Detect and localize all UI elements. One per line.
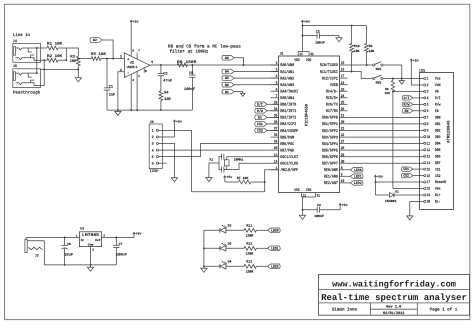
svg-text:1nF: 1nF bbox=[109, 93, 115, 98]
svg-text:RA0/AN0: RA0/AN0 bbox=[280, 63, 294, 68]
svg-text:+5v: +5v bbox=[133, 20, 139, 24]
switch SW1 bbox=[373, 62, 383, 72]
svg-text:ICSP: ICSP bbox=[150, 169, 160, 174]
svg-text:47nF: 47nF bbox=[163, 78, 172, 83]
power +5v C4 bbox=[339, 203, 348, 210]
wire R1-R2 join bbox=[65, 48, 78, 61]
svg-text:RD0/SPP0: RD0/SPP0 bbox=[322, 116, 338, 121]
svg-text:RC6/TX: RC6/TX bbox=[326, 103, 338, 108]
svg-text:EN: EN bbox=[405, 109, 409, 114]
svg-text:15: 15 bbox=[341, 61, 345, 66]
power +5v U1 top bbox=[301, 20, 310, 52]
LCD1 pins bbox=[424, 77, 447, 205]
net tag LED0 at U1 bbox=[348, 168, 364, 174]
svg-text:RD7/SPP7: RD7/SPP7 bbox=[322, 162, 338, 167]
svg-text:R6: R6 bbox=[385, 88, 389, 91]
net tag CS1 at LCD bbox=[401, 167, 423, 172]
svg-text:7: 7 bbox=[427, 116, 429, 121]
svg-text:1N4001: 1N4001 bbox=[385, 199, 397, 203]
svg-text:SW2: SW2 bbox=[376, 81, 382, 85]
wire sleeve ground rail bbox=[41, 68, 79, 70]
svg-text:C5: C5 bbox=[189, 71, 193, 76]
svg-text:R9: R9 bbox=[369, 44, 373, 48]
svg-text:ResetB: ResetB bbox=[435, 180, 447, 185]
svg-text:8: 8 bbox=[145, 70, 147, 73]
analog ground rail bbox=[107, 109, 192, 111]
svg-text:BL+: BL+ bbox=[435, 193, 441, 198]
net tag D/I at U1 bbox=[255, 102, 279, 108]
svg-text:DB7: DB7 bbox=[435, 161, 441, 166]
svg-text:31: 31 bbox=[317, 193, 320, 198]
svg-text:-: - bbox=[127, 72, 130, 76]
svg-text:12: 12 bbox=[427, 148, 431, 153]
svg-text:/MCLR/VPP: /MCLR/VPP bbox=[280, 168, 298, 173]
svg-text:+5v: +5v bbox=[377, 175, 383, 179]
svg-text:RB3/CCP2: RB3/CCP2 bbox=[280, 122, 296, 127]
svg-text:10K: 10K bbox=[354, 49, 360, 53]
svg-text:Rev 1.0: Rev 1.0 bbox=[386, 305, 401, 310]
op-amp U2 LM386-1 bbox=[120, 50, 153, 83]
ground analog bbox=[115, 109, 121, 115]
svg-text:RA5/AN4: RA5/AN4 bbox=[280, 96, 294, 101]
net tag En at U1 bbox=[255, 115, 279, 121]
capacitor C6 10uF bbox=[62, 237, 74, 265]
svg-text:D/I: D/I bbox=[257, 103, 263, 108]
svg-text:www.waitingforfriday.com: www.waitingforfriday.com bbox=[332, 280, 456, 290]
net tag R/W at U1 bbox=[255, 109, 279, 115]
net tag W4 bbox=[222, 69, 279, 75]
net tag W5 bbox=[222, 76, 279, 81]
svg-text:03/01/2011: 03/01/2011 bbox=[383, 311, 405, 316]
ground below R3 bbox=[75, 68, 81, 81]
svg-text:7: 7 bbox=[138, 50, 140, 53]
svg-text:28: 28 bbox=[341, 146, 345, 151]
svg-text:26: 26 bbox=[341, 107, 345, 112]
svg-text:R/W: R/W bbox=[404, 103, 411, 108]
svg-text:RB5/PGM: RB5/PGM bbox=[280, 135, 294, 140]
ground switch rail bbox=[399, 79, 404, 85]
svg-text:150R: 150R bbox=[246, 252, 254, 256]
svg-text:17: 17 bbox=[341, 74, 345, 79]
svg-text:RC1/T1OSI: RC1/T1OSI bbox=[320, 70, 338, 75]
wire ICSP pin1 MCLR bbox=[159, 130, 279, 191]
svg-text:100nF: 100nF bbox=[314, 214, 324, 218]
svg-text:RE1/AN6: RE1/AN6 bbox=[324, 175, 338, 180]
svg-text:RD5/SPP5: RD5/SPP5 bbox=[322, 148, 338, 153]
connector J3 power jack bbox=[25, 238, 80, 265]
ground ICSP pin3 bbox=[159, 144, 178, 182]
svg-text:+5v: +5v bbox=[413, 58, 419, 62]
svg-text:RA3/AN3: RA3/AN3 bbox=[280, 83, 294, 88]
svg-text:DB6: DB6 bbox=[435, 154, 441, 159]
svg-text:R1 10K: R1 10K bbox=[47, 42, 63, 47]
svg-text:32: 32 bbox=[310, 52, 313, 57]
wire SW1 to ground rail bbox=[383, 65, 402, 79]
connector J6 ICSP header bbox=[149, 120, 166, 174]
svg-text:R12: R12 bbox=[246, 242, 252, 246]
svg-text:DB4: DB4 bbox=[435, 141, 441, 146]
wire op-amp ground pins bbox=[131, 68, 144, 110]
wire J4 tip to J5 tip bbox=[36, 47, 38, 74]
svg-text:DB5: DB5 bbox=[435, 148, 441, 153]
svg-text:SW1: SW1 bbox=[376, 67, 382, 71]
svg-text:21: 21 bbox=[341, 127, 345, 132]
svg-text:RC2/CCP1: RC2/CCP1 bbox=[322, 76, 338, 81]
svg-text:18: 18 bbox=[427, 187, 431, 192]
svg-text:LM386-1: LM386-1 bbox=[127, 65, 138, 69]
svg-text:16: 16 bbox=[427, 174, 431, 179]
resistor R6 10K contrast bbox=[385, 79, 395, 95]
svg-text:RA4/T0CKI: RA4/T0CKI bbox=[280, 90, 298, 95]
svg-text:100nF: 100nF bbox=[315, 40, 325, 44]
svg-text:39: 39 bbox=[274, 140, 278, 145]
wire switch common rail to LCD Vss bbox=[383, 78, 424, 80]
connector J5 passthrough jack bbox=[13, 64, 44, 95]
capacitor C5 100nF bbox=[184, 64, 196, 110]
svg-text:25: 25 bbox=[341, 100, 345, 105]
wire op-amp output net bbox=[150, 64, 279, 66]
svg-text:W1: W1 bbox=[225, 90, 229, 95]
net tag W6 bbox=[222, 82, 279, 87]
svg-text:VDD: VDD bbox=[294, 58, 300, 63]
net tag LED2 at U1 bbox=[348, 181, 364, 186]
svg-text:RB4/CSSPP: RB4/CSSPP bbox=[280, 129, 298, 134]
svg-text:C2: C2 bbox=[163, 72, 167, 77]
svg-text:1: 1 bbox=[138, 75, 140, 78]
pin 11 32 VDD top bbox=[298, 52, 313, 58]
svg-text:2: 2 bbox=[120, 68, 122, 72]
net tag CS1 at U1 bbox=[255, 122, 279, 128]
svg-text:X1: X1 bbox=[209, 157, 213, 161]
svg-text:20MHz: 20MHz bbox=[234, 157, 244, 161]
svg-text:C3: C3 bbox=[316, 29, 320, 33]
net tag CS2 at U1 bbox=[255, 128, 279, 134]
svg-text:13: 13 bbox=[274, 153, 278, 158]
svg-text:RD1/SPP1: RD1/SPP1 bbox=[322, 122, 338, 127]
resistor R9 10K bbox=[365, 44, 375, 66]
resistor R8 150R bbox=[177, 60, 197, 67]
diode D1 1N4001 backlight bbox=[376, 182, 424, 203]
svg-text:LED0: LED0 bbox=[354, 168, 362, 173]
svg-text:In: In bbox=[81, 239, 85, 242]
svg-text:RD4/SPP4: RD4/SPP4 bbox=[322, 142, 338, 147]
svg-text:R11: R11 bbox=[246, 224, 252, 228]
svg-text:VUSB: VUSB bbox=[330, 83, 338, 88]
svg-text:filter at 10KHz: filter at 10KHz bbox=[169, 49, 208, 55]
svg-text:24: 24 bbox=[341, 94, 345, 99]
net tag W3 bbox=[222, 56, 245, 66]
svg-text:19: 19 bbox=[427, 193, 431, 198]
switch SW2 bbox=[373, 75, 383, 85]
svg-text:J3: J3 bbox=[35, 253, 39, 257]
svg-text:100nF: 100nF bbox=[184, 87, 195, 92]
capacitor C1 1nF bbox=[104, 58, 115, 110]
svg-text:LED0: LED0 bbox=[271, 229, 279, 234]
net tag R/W at LCD bbox=[402, 102, 424, 107]
svg-text:Vss: Vss bbox=[435, 77, 441, 82]
svg-text:D3: D3 bbox=[228, 242, 232, 246]
svg-text:W6: W6 bbox=[225, 83, 229, 88]
wire LED cathode bus bbox=[203, 230, 205, 266]
svg-text:+5v: +5v bbox=[226, 175, 232, 179]
wire ICSP pin5 PGC bbox=[159, 144, 271, 157]
svg-text:RA1/AN1: RA1/AN1 bbox=[280, 70, 294, 75]
svg-text:19: 19 bbox=[341, 114, 345, 119]
svg-text:VSS: VSS bbox=[294, 188, 300, 193]
svg-text:R13: R13 bbox=[246, 260, 252, 264]
svg-text:R5 10K: R5 10K bbox=[91, 52, 107, 57]
power +5v LCD reset bbox=[374, 175, 423, 183]
resistor R11 150R bbox=[226, 224, 268, 238]
net tag LED2 bbox=[268, 264, 281, 269]
svg-text:20: 20 bbox=[341, 120, 345, 125]
svg-text:LED2: LED2 bbox=[271, 264, 279, 269]
power +5v LCD Vdd bbox=[410, 58, 424, 85]
svg-text:38: 38 bbox=[274, 133, 278, 138]
svg-text:RB0/INT0: RB0/INT0 bbox=[280, 103, 296, 108]
svg-text:Com: Com bbox=[88, 244, 94, 247]
svg-text:LED1: LED1 bbox=[354, 175, 362, 180]
svg-text:U3: U3 bbox=[80, 227, 84, 231]
svg-text:CS1: CS1 bbox=[403, 167, 409, 172]
resistor R2 10K bbox=[47, 54, 66, 62]
power +5v op-amp bbox=[130, 20, 139, 59]
svg-text:DB2: DB2 bbox=[435, 129, 441, 134]
net tag D/I at LCD bbox=[402, 96, 424, 101]
svg-text:CS2: CS2 bbox=[403, 174, 409, 179]
svg-text:PIC18F4550: PIC18F4550 bbox=[305, 103, 310, 126]
svg-text:LED2: LED2 bbox=[354, 181, 362, 186]
svg-text:W2: W2 bbox=[93, 38, 97, 43]
ground crystal bbox=[206, 163, 219, 182]
power +5v rail pullups bbox=[303, 25, 367, 44]
svg-text:5: 5 bbox=[151, 60, 153, 64]
wire ring passthrough bbox=[43, 59, 45, 85]
svg-text:CS2: CS2 bbox=[435, 174, 441, 179]
svg-text:R10: R10 bbox=[354, 44, 360, 48]
svg-text:R4: R4 bbox=[164, 91, 168, 96]
resistor R1 10K bbox=[37, 42, 67, 50]
net tag LED1 at U1 bbox=[348, 174, 364, 180]
wire U3 out to +5v bbox=[102, 237, 134, 239]
svg-text:R3: R3 bbox=[70, 55, 75, 60]
svg-text:22: 22 bbox=[341, 133, 345, 138]
resistor R10 10K bbox=[350, 44, 360, 73]
svg-text:RB6/PGC: RB6/PGC bbox=[280, 142, 294, 147]
wire RC0 to SW1 bbox=[348, 64, 373, 66]
svg-text:Out: Out bbox=[95, 239, 101, 242]
svg-text:R/w: R/w bbox=[435, 103, 441, 108]
LED D3 bbox=[204, 242, 232, 251]
capacitor C3 100nF bbox=[303, 29, 340, 44]
ground U1 VSS bbox=[299, 197, 305, 219]
svg-text:10uF: 10uF bbox=[64, 253, 73, 258]
svg-text:40: 40 bbox=[274, 146, 278, 151]
svg-text:+5v: +5v bbox=[136, 232, 142, 236]
svg-text:6: 6 bbox=[132, 50, 134, 53]
svg-text:En: En bbox=[258, 116, 262, 121]
resistor R5 10K bbox=[77, 52, 124, 60]
wire LCD data bus DB0-DB7 bbox=[348, 117, 424, 163]
svg-text:2: 2 bbox=[152, 135, 154, 140]
svg-text:V0: V0 bbox=[435, 90, 439, 95]
ground supply bbox=[87, 265, 93, 271]
svg-text:D1: D1 bbox=[395, 191, 399, 194]
pin 12 31 VSS bottom bbox=[302, 193, 321, 199]
connector J4 line-in jack bbox=[13, 32, 47, 62]
svg-text:D/I: D/I bbox=[404, 96, 410, 101]
svg-text:11: 11 bbox=[299, 52, 302, 57]
svg-text:W5: W5 bbox=[225, 76, 229, 81]
svg-text:15: 15 bbox=[427, 167, 431, 172]
svg-text:LM7805: LM7805 bbox=[82, 233, 100, 238]
svg-text:OSC1/CLKI: OSC1/CLKI bbox=[280, 155, 298, 160]
note RC low-pass filter bbox=[168, 44, 241, 55]
svg-text:DB3: DB3 bbox=[435, 135, 441, 140]
LED D4 bbox=[204, 260, 232, 269]
U1 left pins bbox=[271, 61, 299, 173]
svg-text:5: 5 bbox=[152, 155, 154, 160]
svg-text:R/W: R/W bbox=[257, 109, 264, 114]
svg-text:12: 12 bbox=[303, 193, 306, 198]
title block bbox=[319, 275, 470, 316]
ground LED bus bbox=[201, 265, 207, 272]
svg-text:RD3/SPP3: RD3/SPP3 bbox=[322, 135, 338, 140]
svg-text:R7 10K: R7 10K bbox=[237, 176, 249, 180]
svg-text:10: 10 bbox=[341, 179, 345, 184]
crystal X1 20MHz bbox=[209, 154, 270, 173]
svg-text:18: 18 bbox=[341, 81, 345, 86]
regulator U3 LM7805 bbox=[76, 227, 105, 252]
svg-text:14: 14 bbox=[274, 159, 278, 164]
svg-text:10K: 10K bbox=[385, 92, 391, 95]
net tag W1 to ground bbox=[222, 89, 245, 96]
svg-text:RC7/RX: RC7/RX bbox=[326, 109, 338, 114]
svg-text:RA2/AN2: RA2/AN2 bbox=[280, 76, 294, 81]
svg-text:J6: J6 bbox=[150, 120, 154, 125]
svg-text:RE0/AN5: RE0/AN5 bbox=[324, 168, 338, 173]
ground C3 bbox=[336, 36, 342, 42]
svg-text:27: 27 bbox=[341, 140, 345, 145]
resistor R12 150R bbox=[226, 242, 268, 256]
wire RC1 to SW2 bbox=[348, 72, 373, 79]
svg-text:CS1: CS1 bbox=[257, 122, 263, 127]
svg-text:VDD: VDD bbox=[306, 58, 312, 63]
svg-text:D4: D4 bbox=[228, 260, 232, 264]
svg-text:DB0: DB0 bbox=[435, 116, 441, 121]
svg-text:RD6/SPP6: RD6/SPP6 bbox=[322, 155, 338, 160]
svg-text:29: 29 bbox=[341, 153, 345, 158]
svg-text:7: 7 bbox=[276, 94, 278, 99]
svg-text:DB1: DB1 bbox=[435, 122, 441, 127]
wire op-amp inverting input to ground bbox=[118, 72, 125, 110]
net tag EN at LCD bbox=[402, 109, 424, 114]
svg-text:RC4/D-: RC4/D- bbox=[326, 90, 338, 95]
svg-text:3: 3 bbox=[152, 142, 154, 147]
svg-text:+5v: +5v bbox=[342, 203, 348, 207]
wire supply ground rail bbox=[44, 247, 116, 266]
svg-text:10: 10 bbox=[427, 135, 431, 140]
svg-text:RB7/PGD: RB7/PGD bbox=[280, 148, 294, 153]
svg-text:4: 4 bbox=[152, 148, 154, 153]
svg-text:14: 14 bbox=[427, 161, 431, 166]
net tag LED1 bbox=[268, 246, 281, 252]
wire ICSP pin4 PGD bbox=[159, 149, 271, 151]
power +5v ICSP pin2 bbox=[159, 119, 182, 137]
svg-text:16: 16 bbox=[341, 68, 345, 73]
svg-text:4: 4 bbox=[132, 79, 134, 82]
svg-text:LED1: LED1 bbox=[271, 247, 279, 252]
power +5v supply output bbox=[133, 232, 142, 238]
svg-text:3: 3 bbox=[120, 54, 122, 58]
svg-text:VSS: VSS bbox=[306, 188, 312, 193]
resistor R13 150R bbox=[226, 260, 268, 274]
svg-text:150R: 150R bbox=[246, 270, 254, 274]
wire V0 Vee net bbox=[392, 91, 424, 189]
svg-text:Vee: Vee bbox=[435, 187, 441, 192]
svg-text:150R: 150R bbox=[246, 234, 254, 238]
svg-text:C7: C7 bbox=[119, 242, 123, 246]
svg-text:100nF: 100nF bbox=[116, 253, 127, 258]
svg-text:20: 20 bbox=[427, 200, 431, 205]
svg-text:6: 6 bbox=[152, 161, 154, 166]
svg-text:C6: C6 bbox=[67, 242, 71, 246]
U1 right pins bbox=[320, 61, 348, 186]
svg-text:U1: U1 bbox=[280, 51, 284, 56]
svg-text:C1: C1 bbox=[109, 84, 113, 89]
svg-text:CS1: CS1 bbox=[435, 167, 441, 172]
svg-text:J5: J5 bbox=[13, 64, 17, 69]
svg-text:1: 1 bbox=[152, 129, 154, 134]
capacitor C4 100nF bbox=[303, 203, 341, 218]
svg-text:Real-time spectrum analyser: Real-time spectrum analyser bbox=[321, 293, 467, 303]
svg-text:EN: EN bbox=[435, 109, 439, 114]
svg-text:RB1/INT1: RB1/INT1 bbox=[280, 109, 296, 114]
svg-text:RD2/SPP2: RD2/SPP2 bbox=[322, 129, 338, 134]
capacitor C7 100nF bbox=[113, 238, 127, 265]
svg-text:RB2/INT2: RB2/INT2 bbox=[280, 116, 296, 121]
svg-text:13: 13 bbox=[427, 154, 431, 159]
svg-text:CS2: CS2 bbox=[257, 129, 263, 134]
resistor R4 10R bbox=[159, 91, 172, 111]
net tag CS2 at LCD bbox=[401, 173, 423, 178]
svg-text:Vdd: Vdd bbox=[435, 83, 441, 88]
svg-text:17: 17 bbox=[427, 180, 430, 185]
svg-text:23: 23 bbox=[341, 87, 345, 92]
svg-text:+5v: +5v bbox=[304, 20, 310, 24]
svg-text:10K: 10K bbox=[369, 49, 375, 53]
svg-text:OSC2/CLKO: OSC2/CLKO bbox=[280, 162, 298, 167]
resistor R7 10K pull-up bbox=[224, 175, 266, 184]
svg-text:D/I: D/I bbox=[435, 96, 441, 101]
microcontroller U1 PIC18F4550 bbox=[279, 51, 340, 193]
svg-text:30: 30 bbox=[341, 159, 345, 164]
LED D2 bbox=[204, 224, 232, 233]
svg-text:+5v: +5v bbox=[176, 119, 182, 123]
svg-text:11: 11 bbox=[427, 141, 431, 146]
capacitor C2 47nF bbox=[158, 64, 172, 91]
svg-text:RE2/AN7: RE2/AN7 bbox=[324, 181, 338, 186]
svg-text:RC0/T1OSO: RC0/T1OSO bbox=[320, 63, 338, 68]
svg-text:W3: W3 bbox=[225, 56, 229, 61]
svg-text:W4: W4 bbox=[225, 70, 229, 75]
net tag W2 bbox=[90, 38, 114, 60]
display LCD1 ATM128645 bbox=[419, 68, 453, 209]
svg-text:10R: 10R bbox=[164, 97, 171, 102]
ground LCD BL- bbox=[407, 201, 424, 220]
resistor R3 10K bbox=[70, 55, 81, 70]
svg-text:C4: C4 bbox=[317, 203, 321, 207]
